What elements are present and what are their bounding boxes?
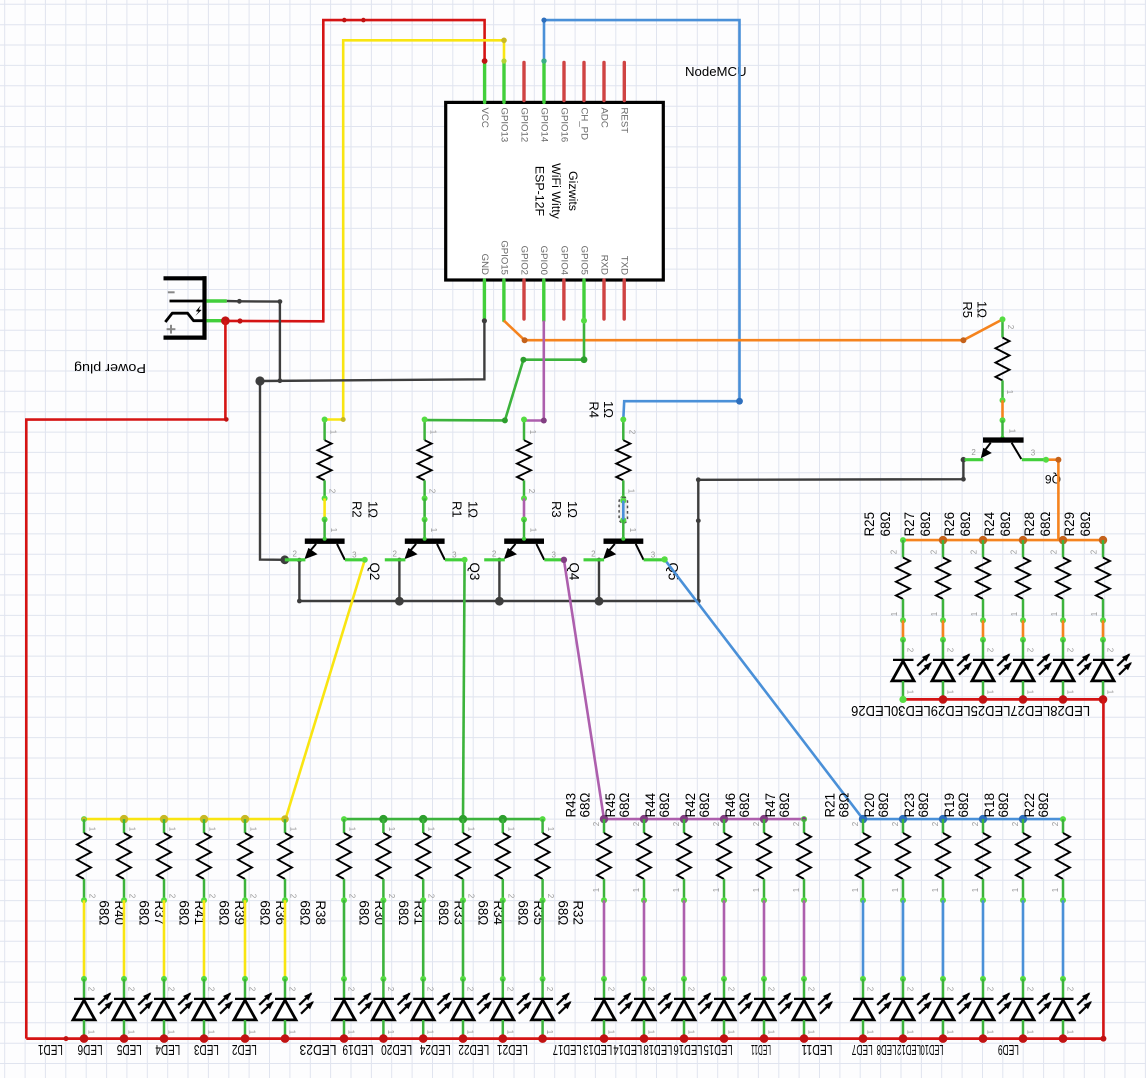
svg-text:R24: R24 bbox=[982, 511, 997, 536]
svg-text:68Ω: 68Ω bbox=[657, 793, 672, 818]
resistor R42 68ohm bbox=[712, 819, 731, 903]
LED group 4 diode 3 bbox=[932, 979, 972, 1039]
svg-text:2: 2 bbox=[289, 894, 298, 899]
svg-text:1: 1 bbox=[248, 1030, 257, 1035]
LED LED25 bbox=[972, 640, 1012, 700]
label R34 68ohm bbox=[476, 900, 506, 925]
resistor R31 68ohm bbox=[376, 819, 396, 903]
svg-text:1: 1 bbox=[1010, 611, 1019, 616]
svg-text:LED5: LED5 bbox=[117, 1041, 142, 1057]
svg-text:2: 2 bbox=[427, 894, 436, 899]
svg-text:2: 2 bbox=[1106, 648, 1115, 653]
svg-text:2: 2 bbox=[467, 894, 476, 899]
resistor R28 68ohm bbox=[1050, 540, 1070, 623]
NodeMCU bottom pin GPIO4 bbox=[558, 246, 569, 319]
svg-text:R47: R47 bbox=[763, 793, 778, 818]
svg-text:1: 1 bbox=[727, 1030, 736, 1035]
LED group 4 diode 4 bbox=[972, 979, 1012, 1039]
svg-text:2: 2 bbox=[546, 894, 555, 899]
wire red from plus pin down-left to bottom rail bbox=[26, 321, 228, 1039]
wire R31 to LED bbox=[380, 900, 386, 982]
svg-text:1: 1 bbox=[1106, 690, 1115, 695]
resistor R3 1ohm bbox=[517, 417, 537, 502]
wire red bank anode rail bbox=[899, 695, 1107, 704]
svg-text:1: 1 bbox=[687, 1030, 696, 1035]
svg-text:2: 2 bbox=[1010, 549, 1019, 554]
svg-text:68Ω: 68Ω bbox=[516, 900, 531, 925]
resistor R27 68ohm bbox=[930, 540, 950, 623]
svg-text:2: 2 bbox=[387, 894, 396, 899]
svg-text:2: 2 bbox=[807, 987, 816, 992]
label R37 68ohm bbox=[137, 900, 167, 925]
wire dark ground bus down to Q2 emitter bbox=[260, 381, 285, 560]
wire dark GND pin to ground bus bbox=[260, 318, 487, 381]
svg-text:2: 2 bbox=[207, 987, 216, 992]
label R25 68ohm bbox=[862, 512, 893, 537]
svg-text:LED20: LED20 bbox=[381, 1041, 412, 1057]
svg-text:LED11: LED11 bbox=[802, 1041, 833, 1057]
svg-text:68Ω: 68Ω bbox=[958, 512, 973, 537]
svg-text:LED3: LED3 bbox=[194, 1041, 219, 1057]
svg-text:ESP-12F: ESP-12F bbox=[532, 166, 546, 217]
label R5 1ohm bbox=[960, 301, 990, 318]
svg-text:1: 1 bbox=[87, 1030, 96, 1035]
LED group 3 diode 6 bbox=[793, 979, 833, 1039]
NodeMCU bottom pin GPIO0 bbox=[538, 246, 549, 321]
wire bus LED group 1 bbox=[81, 815, 289, 823]
svg-text:2: 2 bbox=[792, 821, 801, 826]
junction plus pin bbox=[221, 316, 230, 325]
LED group 3 diode 2 bbox=[633, 979, 673, 1039]
svg-text:LED18: LED18 bbox=[643, 1041, 672, 1057]
svg-text:2: 2 bbox=[946, 648, 955, 653]
LED LED28 bbox=[892, 640, 932, 700]
svg-text:2: 2 bbox=[592, 821, 601, 826]
svg-text:2: 2 bbox=[906, 987, 915, 992]
svg-text:Q2: Q2 bbox=[367, 563, 382, 581]
label Q2 bbox=[367, 563, 382, 581]
wire orange R28 to LED bbox=[1060, 620, 1066, 642]
svg-text:2: 2 bbox=[971, 448, 976, 457]
svg-text:R18: R18 bbox=[982, 793, 997, 818]
svg-text:LED21: LED21 bbox=[497, 1041, 528, 1057]
svg-text:1: 1 bbox=[466, 1030, 475, 1035]
wire dark emitter bus up to Q6 bbox=[696, 460, 966, 604]
wire orange R25 to LED bbox=[900, 620, 906, 642]
junction emitter bus Q4 bbox=[495, 558, 504, 606]
label R33 68ohm bbox=[436, 900, 466, 925]
LED LED26 bbox=[1092, 640, 1132, 700]
svg-text:2: 2 bbox=[1006, 325, 1015, 330]
wire R30 to LED bbox=[341, 900, 347, 982]
svg-text:GPIO14: GPIO14 bbox=[538, 108, 549, 143]
NodeMCU top pin CH_PD bbox=[578, 63, 589, 141]
svg-text:68Ω: 68Ω bbox=[578, 793, 593, 818]
wire R23 to LED bbox=[940, 900, 946, 982]
svg-text:1: 1 bbox=[88, 827, 97, 832]
svg-text:2: 2 bbox=[167, 987, 176, 992]
NodeMCU bottom pin TXD bbox=[619, 256, 630, 319]
svg-text:2: 2 bbox=[712, 821, 721, 826]
svg-text:LED8: LED8 bbox=[877, 1041, 897, 1057]
svg-text:68Ω: 68Ω bbox=[555, 900, 570, 925]
svg-text:3: 3 bbox=[1031, 449, 1036, 458]
svg-text:LED9: LED9 bbox=[998, 1041, 1019, 1057]
svg-text:2: 2 bbox=[931, 821, 940, 826]
svg-text:LED15: LED15 bbox=[704, 1041, 733, 1057]
wire R44 to LED bbox=[681, 900, 687, 982]
svg-text:1: 1 bbox=[348, 827, 357, 832]
svg-text:1: 1 bbox=[128, 827, 137, 832]
svg-text:2: 2 bbox=[248, 987, 257, 992]
svg-text:2: 2 bbox=[288, 987, 297, 992]
svg-text:LED10: LED10 bbox=[921, 1041, 944, 1057]
svg-text:1: 1 bbox=[647, 1030, 656, 1035]
wire orange R27 to LED bbox=[940, 620, 946, 642]
junction ground bus corner bbox=[255, 376, 264, 385]
svg-text:2: 2 bbox=[672, 821, 681, 826]
svg-text:2: 2 bbox=[347, 987, 356, 992]
svg-text:2: 2 bbox=[891, 821, 900, 826]
svg-text:2: 2 bbox=[946, 987, 955, 992]
wire orange R24 to LED bbox=[1020, 620, 1026, 642]
svg-text:NodeMCU: NodeMCU bbox=[685, 64, 747, 79]
svg-text:GPIO2: GPIO2 bbox=[518, 246, 529, 275]
wire bus LED group 3 bbox=[600, 815, 807, 823]
svg-text:R32: R32 bbox=[571, 900, 586, 925]
svg-text:R27: R27 bbox=[902, 512, 917, 537]
svg-text:1: 1 bbox=[986, 1030, 995, 1035]
label R45 68ohm bbox=[603, 793, 632, 818]
svg-text:2: 2 bbox=[128, 894, 137, 899]
svg-text:1Ω: 1Ω bbox=[601, 401, 616, 418]
svg-text:2: 2 bbox=[348, 894, 357, 899]
wire bus LED group 2 bbox=[341, 815, 546, 823]
svg-text:R43: R43 bbox=[563, 793, 578, 818]
wire red VCC supply from plus pin up to VCC pin bbox=[225, 18, 487, 324]
svg-text:VCC: VCC bbox=[479, 108, 490, 128]
svg-text:LED4: LED4 bbox=[155, 1041, 180, 1057]
resistor R38 68ohm bbox=[278, 819, 298, 903]
svg-text:2: 2 bbox=[88, 894, 97, 899]
svg-text:1: 1 bbox=[1026, 1030, 1035, 1035]
svg-text:3: 3 bbox=[352, 551, 357, 560]
label R35 68ohm bbox=[516, 900, 546, 925]
svg-text:R30: R30 bbox=[372, 900, 387, 925]
svg-text:1: 1 bbox=[752, 887, 761, 892]
LED group 1 diode 1 bbox=[73, 979, 113, 1039]
svg-text:1: 1 bbox=[1005, 390, 1014, 395]
svg-text:1: 1 bbox=[288, 1030, 297, 1035]
svg-text:2: 2 bbox=[591, 550, 596, 559]
wire yellow GPIO13 to R2 bbox=[325, 38, 507, 423]
svg-text:2: 2 bbox=[632, 821, 641, 826]
svg-text:GPIO15: GPIO15 bbox=[498, 240, 509, 275]
LED LED30 bbox=[1052, 640, 1092, 700]
svg-text:68Ω: 68Ω bbox=[258, 900, 273, 925]
svg-text:1: 1 bbox=[626, 489, 635, 494]
svg-text:1: 1 bbox=[986, 690, 995, 695]
label R30 68ohm bbox=[357, 900, 387, 925]
svg-text:1: 1 bbox=[329, 528, 338, 533]
svg-text:2: 2 bbox=[727, 987, 736, 992]
label R47 68ohm bbox=[763, 793, 792, 818]
svg-text:1: 1 bbox=[506, 827, 515, 832]
wire R32 to LED bbox=[540, 900, 546, 982]
svg-text:R26: R26 bbox=[942, 512, 957, 537]
svg-text:1: 1 bbox=[426, 1030, 435, 1035]
wire R22 to LED bbox=[1060, 900, 1066, 982]
svg-text:2: 2 bbox=[428, 489, 437, 494]
label NodeMCU bbox=[685, 64, 747, 79]
label R26 68ohm bbox=[942, 512, 973, 537]
svg-text:1: 1 bbox=[1050, 611, 1059, 616]
svg-text:68Ω: 68Ω bbox=[177, 900, 192, 925]
resistor R18 68ohm bbox=[1011, 819, 1030, 903]
svg-text:68Ω: 68Ω bbox=[996, 793, 1011, 818]
resistor R1 1ohm bbox=[418, 417, 438, 502]
svg-text:1: 1 bbox=[427, 827, 436, 832]
wire R42 to LED bbox=[721, 900, 727, 982]
NodeMCU top pin ADC bbox=[598, 63, 609, 128]
svg-text:R38: R38 bbox=[313, 900, 328, 925]
svg-text:LED13: LED13 bbox=[583, 1041, 612, 1057]
svg-text:1: 1 bbox=[607, 1030, 616, 1035]
svg-text:3: 3 bbox=[551, 551, 556, 560]
svg-text:68Ω: 68Ω bbox=[217, 900, 232, 925]
svg-text:2: 2 bbox=[168, 894, 177, 899]
svg-text:LED14: LED14 bbox=[613, 1041, 642, 1057]
svg-text:2: 2 bbox=[527, 489, 536, 494]
LED group 1 diode 2 bbox=[113, 979, 153, 1039]
svg-text:LED17: LED17 bbox=[553, 1041, 582, 1057]
svg-text:RXD: RXD bbox=[598, 255, 609, 275]
svg-text:1: 1 bbox=[890, 611, 899, 616]
svg-text:1: 1 bbox=[249, 827, 258, 832]
wire R40 to LED bbox=[81, 900, 87, 982]
svg-text:R25: R25 bbox=[862, 512, 877, 537]
label R44 68ohm bbox=[643, 792, 672, 817]
svg-text:1: 1 bbox=[1051, 887, 1060, 892]
svg-text:1: 1 bbox=[289, 827, 298, 832]
svg-text:LED12: LED12 bbox=[897, 1041, 921, 1057]
svg-text:2: 2 bbox=[426, 987, 435, 992]
NodeMCU top pin VCC bbox=[479, 61, 490, 128]
label R46 68ohm bbox=[723, 793, 752, 818]
svg-text:68Ω: 68Ω bbox=[357, 900, 372, 925]
svg-text:1: 1 bbox=[906, 1030, 915, 1035]
LED group 1 diode 5 bbox=[234, 979, 274, 1039]
wire R20 to LED bbox=[900, 900, 906, 982]
wire R3 to base of transistor bbox=[521, 498, 527, 522]
svg-text:68Ω: 68Ω bbox=[837, 793, 852, 818]
svg-text:R2: R2 bbox=[350, 501, 365, 518]
NodeMCU bottom pin GND bbox=[479, 254, 490, 321]
LED group 3 diode 3 bbox=[673, 979, 713, 1039]
svg-text:1Ω: 1Ω bbox=[466, 501, 481, 518]
wire red bottom anode rail bbox=[26, 1034, 1106, 1043]
label Power plug bbox=[74, 361, 146, 376]
wire purple Q4 collector to LED group 3 bus bbox=[561, 557, 604, 820]
svg-text:1: 1 bbox=[906, 690, 915, 695]
svg-text:1: 1 bbox=[851, 887, 860, 892]
NodeMCU top pin GPIO13 bbox=[498, 61, 509, 142]
svg-text:2: 2 bbox=[851, 821, 860, 826]
LED group 4 diode 2 bbox=[892, 979, 932, 1039]
wire R43 to LED bbox=[601, 900, 607, 982]
wire R39 to LED bbox=[201, 900, 207, 982]
resistor R20 68ohm bbox=[891, 819, 910, 903]
svg-text:1: 1 bbox=[807, 1030, 816, 1035]
svg-text:REST: REST bbox=[619, 108, 630, 134]
label R40 68ohm bbox=[97, 900, 127, 925]
NodeMCU bottom pin GPIO2 bbox=[518, 246, 529, 319]
resistor R44 68ohm bbox=[672, 819, 691, 903]
transistor Q2 bbox=[285, 520, 365, 560]
label Q6 bbox=[1045, 472, 1061, 486]
svg-text:1: 1 bbox=[545, 1030, 554, 1035]
svg-text:1: 1 bbox=[529, 528, 538, 533]
svg-text:68Ω: 68Ω bbox=[617, 793, 632, 818]
svg-text:68Ω: 68Ω bbox=[956, 793, 971, 818]
svg-text:LED19: LED19 bbox=[343, 1041, 374, 1057]
svg-text:2: 2 bbox=[627, 430, 636, 435]
svg-text:R22: R22 bbox=[1022, 793, 1037, 818]
resistor R29 68ohm bbox=[1090, 540, 1110, 623]
svg-text:2: 2 bbox=[392, 550, 397, 559]
NodeMCU top pin REST bbox=[619, 63, 630, 134]
resistor R46 68ohm bbox=[752, 819, 771, 903]
svg-text:68Ω: 68Ω bbox=[918, 512, 933, 537]
svg-text:2: 2 bbox=[1026, 648, 1035, 653]
svg-text:2: 2 bbox=[386, 987, 395, 992]
wire purple GPIO0 to R3 bbox=[524, 321, 547, 424]
svg-text:68Ω: 68Ω bbox=[697, 793, 712, 818]
svg-text:68Ω: 68Ω bbox=[777, 793, 792, 818]
resistor R26 68ohm bbox=[970, 540, 990, 623]
wire R45 to LED bbox=[641, 900, 647, 982]
svg-text:2: 2 bbox=[906, 648, 915, 653]
svg-text:68Ω: 68Ω bbox=[97, 900, 112, 925]
svg-text:1: 1 bbox=[891, 887, 900, 892]
svg-text:GPIO13: GPIO13 bbox=[498, 108, 509, 143]
svg-text:2: 2 bbox=[505, 987, 514, 992]
label R23 68ohm bbox=[902, 793, 931, 818]
svg-text:2: 2 bbox=[208, 894, 217, 899]
svg-text:2: 2 bbox=[1090, 549, 1099, 554]
svg-text:TXD: TXD bbox=[619, 256, 630, 275]
resistor R32 68ohm bbox=[536, 819, 556, 903]
resistor R39 68ohm bbox=[197, 819, 217, 903]
LED group 3 diode 5 bbox=[753, 979, 793, 1039]
transistor Q5 bbox=[584, 520, 664, 560]
svg-text:68Ω: 68Ω bbox=[1036, 793, 1051, 818]
svg-text:1: 1 bbox=[1026, 690, 1035, 695]
wire orange Q6 collector to resistor bank bus bbox=[1043, 457, 1061, 540]
svg-text:1: 1 bbox=[429, 430, 438, 435]
svg-text:2: 2 bbox=[1011, 821, 1020, 826]
wire dark from minus pin to GND bus bbox=[227, 299, 282, 383]
svg-text:R42: R42 bbox=[683, 793, 698, 818]
svg-text:LED16: LED16 bbox=[674, 1041, 703, 1057]
svg-text:2: 2 bbox=[328, 489, 337, 494]
svg-text:1: 1 bbox=[946, 690, 955, 695]
svg-text:1: 1 bbox=[632, 887, 641, 892]
LED group 2 diode 5 bbox=[492, 979, 532, 1039]
svg-text:2: 2 bbox=[930, 549, 939, 554]
svg-text:1: 1 bbox=[792, 887, 801, 892]
LED LED27 bbox=[932, 640, 972, 700]
svg-text:Q4: Q4 bbox=[566, 563, 581, 581]
svg-text:R5: R5 bbox=[960, 301, 975, 318]
wire R46 to LED bbox=[761, 900, 767, 982]
wire yellow Q2 collector to LED group 1 bus bbox=[286, 557, 368, 819]
wire R18 to LED bbox=[1020, 900, 1026, 982]
svg-text:2: 2 bbox=[1050, 549, 1059, 554]
wire R21 to LED bbox=[860, 900, 866, 982]
svg-text:1: 1 bbox=[866, 1030, 875, 1035]
svg-text:LED28LED27LED25LED29LED30LED26: LED28LED27LED25LED29LED30LED26 bbox=[851, 702, 1090, 718]
svg-text:2: 2 bbox=[292, 550, 297, 559]
label R21 68ohm bbox=[822, 793, 851, 818]
label R43 68ohm bbox=[563, 793, 592, 818]
wire bus LED group 4 bbox=[859, 815, 1066, 823]
wire R2 to base of transistor bbox=[322, 498, 328, 522]
LED group 1 diode 6 bbox=[274, 979, 314, 1039]
svg-text:R3: R3 bbox=[549, 501, 564, 518]
label R20 68ohm bbox=[862, 793, 891, 818]
wire blue GPIO14 to R4 bbox=[541, 18, 743, 420]
svg-text:R4: R4 bbox=[587, 401, 602, 418]
wire dark emitter bus bbox=[297, 558, 698, 604]
svg-text:LED11: LED11 bbox=[751, 1041, 771, 1057]
svg-text:1: 1 bbox=[386, 1030, 395, 1035]
svg-text:GPIO5: GPIO5 bbox=[578, 246, 589, 275]
svg-text:3: 3 bbox=[651, 551, 656, 560]
svg-text:68Ω: 68Ω bbox=[876, 793, 891, 818]
svg-text:GPIO4: GPIO4 bbox=[558, 246, 569, 276]
resistor R35 68ohm bbox=[496, 819, 516, 903]
svg-text:1: 1 bbox=[429, 528, 438, 533]
svg-text:1: 1 bbox=[931, 887, 940, 892]
resistor R19 68ohm bbox=[971, 819, 990, 903]
label R19 68ohm bbox=[942, 793, 971, 818]
svg-text:1: 1 bbox=[167, 1030, 176, 1035]
svg-text:1: 1 bbox=[971, 887, 980, 892]
svg-text:Power plug: Power plug bbox=[74, 361, 146, 376]
svg-text:LED22: LED22 bbox=[458, 1041, 489, 1057]
svg-text:1: 1 bbox=[592, 887, 601, 892]
labels LED names bottom row (rotated) bbox=[38, 1041, 1019, 1057]
svg-text:68Ω: 68Ω bbox=[1038, 512, 1053, 537]
resistor R45 68ohm bbox=[632, 819, 651, 903]
svg-text:1Ω: 1Ω bbox=[565, 501, 580, 518]
label R1 1ohm bbox=[450, 501, 481, 518]
svg-text:1: 1 bbox=[467, 827, 476, 832]
svg-text:2: 2 bbox=[890, 549, 899, 554]
svg-text:68Ω: 68Ω bbox=[998, 512, 1013, 537]
transistor Q3 bbox=[385, 520, 465, 560]
svg-text:1: 1 bbox=[672, 887, 681, 892]
svg-text:R46: R46 bbox=[723, 793, 738, 818]
wire R36 to LED bbox=[242, 900, 248, 982]
label R42 68ohm bbox=[683, 793, 712, 818]
label R36 68ohm bbox=[258, 900, 288, 925]
svg-text:2: 2 bbox=[249, 894, 258, 899]
svg-text:1: 1 bbox=[207, 1030, 216, 1035]
svg-text:68Ω: 68Ω bbox=[878, 512, 893, 537]
resistor R23 68ohm bbox=[931, 819, 950, 903]
